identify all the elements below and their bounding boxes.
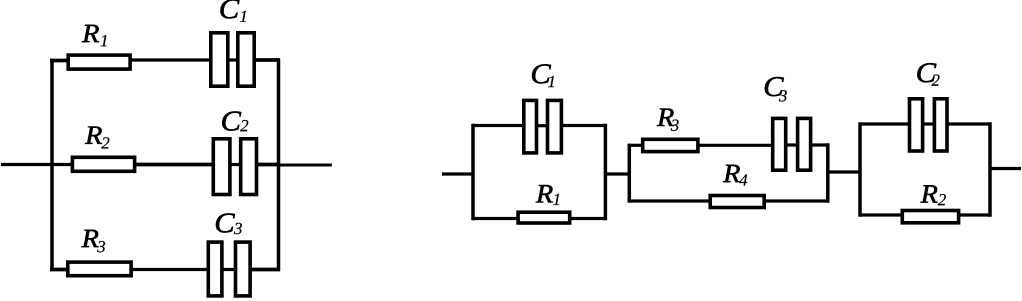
label R3 (left circuit): [81, 230, 98, 247]
label C1 (left circuit): [220, 0, 239, 18]
capacitor C2 (right circuit): [910, 99, 948, 151]
label R1 (right circuit): [536, 185, 553, 202]
wire block2 top left: [629, 144, 642, 147]
wire R2 to C2: [136, 163, 214, 167]
resistor R4 (right circuit): [710, 196, 764, 208]
wire block2 left vertical: [628, 144, 632, 203]
wire block3 top left: [860, 122, 909, 125]
wire R1 to C1: [131, 58, 210, 61]
label C2 subscript 2: [240, 120, 248, 131]
label C3 subscript 3: [779, 90, 787, 101]
wire block2 right vertical: [826, 143, 830, 202]
label C1 subscript 1: [240, 11, 246, 22]
wire branch1 rail to R1: [50, 59, 67, 63]
label C2 (left circuit): [222, 111, 241, 130]
label C1 (right circuit): [532, 64, 551, 83]
wire block1 bottom right: [570, 217, 605, 220]
wire block1 bottom left: [473, 217, 517, 220]
label R2 subscript 2: [101, 137, 109, 148]
wire right rail (left circuit): [277, 59, 281, 271]
wire block2 bottom left: [629, 199, 710, 202]
label R4 subscript 4: [739, 174, 747, 185]
resistor R2 (left circuit): [72, 157, 134, 171]
resistor R3 (left circuit): [68, 262, 131, 276]
wire block1 top left: [473, 124, 523, 127]
wire block1 left vertical: [471, 124, 475, 220]
wire output lead right circuit: [990, 167, 1021, 170]
capacitor C1 (right circuit): [524, 100, 562, 152]
resistor R3 (right circuit): [643, 139, 698, 151]
wire branch3 rail to R3: [50, 268, 67, 272]
wire output lead left circuit: [279, 164, 332, 167]
wire input lead right circuit: [442, 172, 475, 175]
wire C3 to right rail: [250, 268, 280, 272]
label R2 subscript 2: [938, 194, 946, 205]
resistor R1 (left circuit): [68, 55, 130, 69]
wire block1 top right: [562, 124, 605, 127]
label R4 (right circuit): [723, 165, 740, 182]
capacitor C1 (left circuit): [211, 33, 254, 86]
label R2 (right circuit): [920, 185, 937, 202]
label R3 (right circuit): [657, 109, 674, 126]
wire block3 top right: [947, 122, 990, 125]
wire input lead left circuit: [1, 163, 71, 166]
wire block3 right vertical: [988, 122, 992, 216]
wire C2 to right rail: [257, 163, 280, 167]
wire block1 right vertical: [604, 124, 608, 220]
wire C3 to block2 right: [811, 143, 829, 146]
capacitor C3 (left circuit): [208, 242, 250, 296]
label C2 subscript 2: [931, 75, 939, 86]
resistor R2 (right circuit): [902, 211, 958, 223]
capacitor C3 (right circuit): [773, 118, 811, 170]
wire block2 bottom right: [764, 199, 829, 202]
resistor R1 (right circuit): [518, 212, 570, 223]
label R1 subscript 1: [101, 35, 107, 46]
label C2 (right circuit): [917, 63, 936, 82]
wire connector block1-block2: [605, 172, 631, 175]
label C3 (left circuit): [216, 213, 235, 232]
label C3 (right circuit): [765, 77, 784, 96]
label R1 subscript 1: [553, 194, 559, 205]
label R1 (left circuit): [82, 25, 99, 42]
label R3 subscript 3: [97, 241, 105, 252]
wire R3 to C3: [698, 144, 772, 147]
label C3 subscript 3: [234, 223, 242, 234]
wire left rail (left circuit): [50, 59, 54, 271]
wire C1 to right rail: [255, 58, 280, 62]
capacitor C2 (left circuit): [213, 139, 256, 195]
label R2 (left circuit): [85, 127, 102, 144]
wire block3 bottom left: [860, 213, 902, 216]
wire R3 to C3: [131, 268, 208, 271]
wire connector block2-block3: [827, 170, 862, 173]
wire block3 bottom right: [959, 213, 990, 216]
label R3 subscript 3: [671, 120, 679, 131]
label C1 subscript 1: [548, 76, 554, 87]
wire block3 left vertical: [858, 122, 862, 216]
